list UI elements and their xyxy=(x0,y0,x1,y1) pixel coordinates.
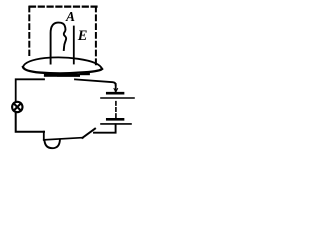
svg-text:E: E xyxy=(77,28,88,44)
svg-text:A: A xyxy=(65,9,75,24)
